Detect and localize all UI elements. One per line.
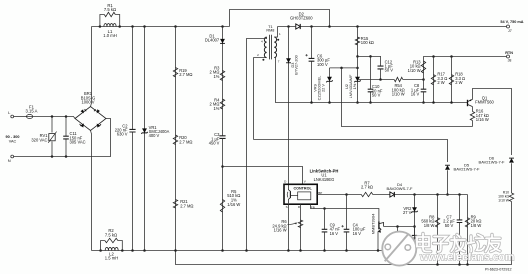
svg-text:CONTROL: CONTROL	[293, 186, 312, 190]
svg-text:630 V: 630 V	[117, 132, 128, 137]
svg-text:1/10 W: 1/10 W	[408, 68, 421, 73]
transistor Q1	[467, 100, 469, 106]
bridge rectifier BR1	[75, 107, 106, 131]
svg-text:RTN: RTN	[505, 51, 513, 55]
wire C4 lower	[346, 232, 348, 250]
zener VR9	[327, 77, 332, 82]
junction R5 bottom	[221, 249, 224, 252]
wire VR9 vertical	[329, 68, 331, 103]
svg-text:27 V: 27 V	[403, 210, 412, 215]
bus primary gnd	[92, 250, 415, 252]
inductor L1	[104, 24, 116, 27]
wire C11 lower	[65, 139, 67, 157]
resistor R18	[449, 75, 453, 85]
wire VR1 vertical	[144, 27, 146, 251]
wire node to C12	[358, 56, 381, 66]
capacitor C9	[322, 229, 328, 232]
IC U1 body	[284, 184, 317, 204]
watermark elecfans logo and text	[382, 232, 416, 266]
transformer T1 core	[269, 35, 271, 60]
wire R17	[433, 57, 435, 103]
wire C11 vertical	[65, 117, 67, 137]
zener VR1	[142, 128, 147, 133]
svg-text:16 V: 16 V	[353, 231, 362, 236]
svg-text:2 W: 2 W	[437, 80, 444, 85]
resistor R17	[431, 75, 435, 85]
junction pin4 bottom	[245, 249, 248, 252]
junction L2R2 left	[99, 249, 102, 252]
wire cap to gnd bus	[414, 238, 416, 250]
capacitor C11	[63, 136, 69, 139]
wire D5 bottom	[447, 170, 449, 194]
wire VR9 top link	[330, 67, 358, 69]
diode D4	[390, 192, 394, 197]
wire R7 to D4	[373, 194, 390, 196]
resistor R1	[104, 12, 115, 16]
svg-text:1%: 1%	[213, 74, 219, 79]
svg-text:1/10 W: 1/10 W	[498, 198, 510, 202]
transistor Q2	[378, 222, 380, 230]
svg-text:BAV21WS-7-F: BAV21WS-7-F	[454, 167, 480, 172]
junction D5 bottom	[446, 193, 449, 196]
junction C11 top	[65, 115, 68, 118]
svg-text:BAV20WS-7-F: BAV20WS-7-F	[387, 186, 413, 191]
svg-text:1/16 W: 1/16 W	[274, 228, 287, 233]
transformer T1 primary winding	[264, 37, 266, 58]
wire drain line	[288, 27, 290, 185]
wire R54 to C8	[403, 79, 424, 81]
diode D1	[220, 39, 225, 44]
junction top route	[328, 25, 331, 28]
wire D6 to R10	[511, 163, 513, 193]
svg-text:16 V: 16 V	[411, 92, 420, 97]
bus top-left	[92, 26, 230, 28]
svg-text:2.7 MΩ: 2.7 MΩ	[179, 139, 192, 144]
svg-text:LNK419EG: LNK419EG	[314, 177, 335, 182]
junction R17 bottom	[432, 101, 435, 104]
svg-text:RM8: RM8	[266, 29, 274, 33]
diode D2	[296, 24, 300, 29]
resistor R10	[509, 193, 513, 202]
wire R pin	[300, 204, 302, 250]
wire C9 lower	[324, 232, 326, 250]
svg-text:GH03TZ600: GH03TZ600	[290, 16, 313, 21]
wire R8	[437, 195, 439, 265]
junction C8 top	[422, 78, 425, 81]
junction R21 bottom	[174, 249, 177, 252]
wire S pin	[287, 204, 289, 250]
junction R1L1 right	[118, 25, 121, 28]
capacitor C12	[378, 66, 384, 69]
wire Q2 collector	[384, 226, 415, 228]
resistor R3	[220, 71, 224, 81]
junction R17 top	[432, 55, 435, 58]
resistor R4	[220, 99, 224, 109]
junction C9 bottom	[323, 249, 326, 252]
svg-text:1%: 1%	[213, 106, 219, 111]
wire T1 pin4	[247, 37, 267, 251]
svg-text:1.5 mH: 1.5 mH	[105, 256, 119, 261]
svg-text:N: N	[8, 158, 11, 163]
svg-text:MMBT3904: MMBT3904	[371, 213, 376, 234]
svg-text:50 V: 50 V	[372, 93, 381, 98]
wire R1 loop right	[115, 15, 119, 27]
svg-text:VAC: VAC	[9, 139, 17, 143]
junction C12 bottom	[379, 78, 382, 81]
junction C7 bottom	[458, 263, 461, 266]
junction C4 bottom	[345, 249, 348, 252]
resistor R8	[435, 218, 439, 228]
capacitor C8	[421, 89, 427, 92]
node V divider	[221, 165, 224, 168]
junction C6 top	[310, 25, 313, 28]
svg-text:S: S	[286, 205, 288, 209]
svg-text:7.5 kΩ: 7.5 kΩ	[104, 7, 116, 12]
wire R15	[357, 27, 359, 103]
junction D3 top	[287, 25, 290, 28]
wire C4 vertical	[346, 195, 348, 230]
svg-text:16 V: 16 V	[330, 231, 339, 236]
junction R19 top	[174, 25, 177, 28]
junction VR1 top	[143, 25, 146, 28]
wire T1 pin1	[274, 27, 277, 38]
wire RV1 lower	[51, 142, 53, 157]
capacitor C2	[129, 129, 135, 132]
junction VR1 bottom	[143, 249, 146, 252]
svg-text:50 V: 50 V	[445, 223, 454, 228]
shunt regulator U2	[355, 77, 360, 82]
svg-text:1.0 mH: 1.0 mH	[103, 33, 117, 38]
wire fuse to bridge	[32, 117, 75, 119]
junction R15 top	[356, 25, 359, 28]
wire R18	[451, 57, 453, 103]
resistor R15	[355, 37, 359, 45]
wire L to fuse	[14, 116, 27, 118]
junction C6 bottom	[310, 101, 313, 104]
svg-text:2.7 MΩ: 2.7 MΩ	[179, 72, 192, 77]
capacitor C6	[309, 58, 315, 61]
wire C2 lower	[132, 132, 134, 251]
wire R1 loop	[100, 15, 104, 27]
svg-text:BAV21WS-7-F: BAV21WS-7-F	[479, 159, 505, 164]
resistor R19	[173, 68, 177, 78]
resistor R9	[465, 218, 469, 228]
wire VR2 bus end	[414, 227, 416, 251]
diode D5	[445, 165, 450, 170]
junction RV1 bottom	[51, 155, 54, 158]
junction C7 top	[458, 193, 461, 196]
svg-text:54 V, 750 mA: 54 V, 750 mA	[500, 20, 523, 24]
svg-text:100 kΩ: 100 kΩ	[361, 40, 374, 45]
svg-text:V: V	[304, 180, 306, 184]
junction Q2 collector drop	[396, 225, 399, 228]
wire FB pin	[311, 204, 379, 221]
svg-text:7.5 kΩ: 7.5 kΩ	[105, 232, 117, 237]
resistor R21	[173, 200, 177, 209]
svg-text:450 V: 450 V	[209, 140, 220, 145]
wire C8 lower	[423, 92, 425, 103]
svg-text:22 V: 22 V	[321, 84, 326, 92]
wire C12 lower	[380, 69, 382, 80]
wire R19 chain	[175, 27, 177, 251]
svg-text:1000 V: 1000 V	[82, 99, 95, 104]
wire C9 vertical	[324, 209, 326, 230]
junction C2 bottom	[131, 249, 134, 252]
junction VR9 bottom	[328, 101, 331, 104]
wire D1 chain upper	[222, 27, 224, 136]
resistor R5	[220, 200, 224, 213]
svg-text:1/16 W: 1/16 W	[227, 202, 240, 207]
wire ref line	[359, 79, 395, 81]
capacitor C4	[344, 229, 350, 232]
svg-text:1/16 W: 1/16 W	[476, 117, 489, 122]
junction R18 top	[450, 55, 453, 58]
wire VR2 vertical	[414, 195, 416, 236]
wire secondary return line	[312, 102, 468, 104]
resistor R20	[173, 135, 177, 145]
T1 polarity dot primary	[262, 59, 264, 61]
svg-text:100 V: 100 V	[317, 62, 328, 67]
diode D6	[509, 158, 514, 163]
svg-text:2.7 MΩ: 2.7 MΩ	[180, 203, 193, 208]
IC U1 inner controller box	[298, 192, 311, 200]
capacitor C10	[368, 89, 374, 92]
svg-text:2.7 kΩ: 2.7 kΩ	[361, 185, 373, 190]
wire R2 loop right	[118, 241, 123, 251]
junction S pin bottom	[287, 249, 290, 252]
diode D3	[286, 58, 291, 63]
IC U1 mosfet symbol	[288, 185, 290, 203]
junction R1L1 left	[99, 25, 102, 28]
wire bias to R16 line	[342, 68, 473, 127]
R6 leader arrow	[287, 223, 296, 225]
wire C3 to R5	[222, 139, 224, 251]
wire D4 to R9	[395, 194, 468, 196]
junction R15 bottom	[356, 55, 359, 58]
svg-text:2 W: 2 W	[455, 80, 462, 85]
svg-text:50 V: 50 V	[385, 68, 394, 73]
junction C9 top	[323, 207, 326, 210]
junction L2R2 right	[121, 249, 124, 252]
wire drain to D5	[254, 140, 448, 163]
terminal N	[11, 155, 14, 158]
wire C10 vertical	[370, 56, 372, 89]
wire BP line	[317, 194, 361, 196]
junction VR2 top	[413, 193, 416, 196]
terminal J7	[507, 25, 510, 28]
junction C4 top	[345, 193, 348, 196]
resistor R54	[394, 77, 403, 81]
resistor R6	[298, 220, 302, 228]
wire R2 loop	[101, 241, 105, 251]
junction C11 bottom	[65, 155, 68, 158]
wire R16 bottom	[472, 121, 474, 127]
svg-text:320 VAC: 320 VAC	[31, 137, 47, 142]
wire T1 pin7	[274, 58, 311, 103]
svg-text:J8: J8	[508, 59, 512, 63]
junction R6 bottom	[299, 249, 302, 252]
junction R8 bottom	[436, 263, 439, 266]
resistor R7	[361, 192, 373, 196]
junction D1 top	[221, 25, 224, 28]
junction Q2 emitter bottom	[377, 249, 380, 252]
resistor R2	[105, 238, 118, 242]
wire D2 cathode rail	[301, 26, 507, 28]
svg-text:305 VAC: 305 VAC	[70, 139, 86, 144]
junction U2 bottom node	[356, 101, 359, 104]
inductor L2	[105, 247, 118, 250]
svg-text:1/8 W: 1/8 W	[424, 223, 435, 228]
fuse F1	[27, 114, 33, 118]
varistor RV1	[49, 134, 55, 141]
capacitor C3	[219, 136, 225, 139]
svg-text:1/10 W: 1/10 W	[392, 92, 405, 97]
wire C2 vertical	[132, 27, 134, 130]
junction C8 bottom	[422, 101, 425, 104]
zener VR2	[412, 207, 417, 212]
wire C7 lower	[459, 223, 461, 265]
wire C10 lower	[370, 92, 372, 103]
wire Q1 emitter	[473, 89, 512, 156]
wire output rail	[278, 26, 296, 28]
capacitor below VR2	[412, 235, 417, 238]
capacitor C7	[457, 220, 463, 223]
wire C6 lower	[311, 61, 313, 102]
svg-text:DL4007: DL4007	[205, 38, 220, 43]
wire Q2 collector drop	[397, 227, 399, 251]
svg-text:1%: 1%	[352, 83, 357, 89]
resistor R16	[470, 112, 474, 121]
svg-text:J7: J7	[508, 29, 512, 33]
varistor RV1 arrow	[48, 132, 56, 143]
wire top route	[230, 10, 330, 27]
wire R10 to return	[176, 202, 512, 265]
resistor R13	[421, 61, 425, 73]
svg-text:BYV27-200: BYV27-200	[295, 55, 299, 74]
junction C10 bottom	[369, 101, 372, 104]
wire Q2 emitter	[377, 232, 379, 251]
junction U2 top node	[356, 67, 359, 70]
wire RV1 vertical	[51, 117, 53, 133]
wire R9	[467, 195, 469, 265]
junction C2 top	[131, 25, 134, 28]
svg-text:www.elecfans.com: www.elecfans.com	[419, 251, 514, 263]
svg-text:FMMT560: FMMT560	[475, 100, 494, 105]
wire R13 vertical	[423, 56, 425, 89]
wire bridge plus riser	[91, 27, 92, 107]
wire RTN rail	[424, 56, 507, 58]
junction VR2 Q2 node	[413, 225, 416, 228]
junction 341 node	[340, 67, 343, 70]
terminal J8	[507, 55, 510, 58]
T1 polarity dot secondary	[277, 39, 279, 41]
junction RV1 top	[51, 115, 54, 118]
wire V pin	[223, 167, 303, 185]
wire bridge minus riser	[91, 131, 92, 251]
junction C10 top	[369, 55, 372, 58]
svg-text:1/8 W: 1/8 W	[471, 223, 482, 228]
svg-text:PI-6623-072912: PI-6623-072912	[485, 268, 511, 272]
wire C7 vertical	[459, 195, 461, 220]
junction R9 bottom	[466, 263, 469, 266]
wire Q1 collector	[472, 107, 474, 112]
wire C6 vertical	[311, 27, 313, 59]
transformer T1 secondary winding	[274, 37, 276, 58]
svg-text:400 V: 400 V	[149, 133, 160, 138]
terminal L	[11, 115, 14, 118]
svg-text:3.15 A: 3.15 A	[26, 109, 38, 114]
junction R8 top	[436, 193, 439, 196]
wire T1 pin2	[254, 58, 267, 140]
wire N line	[14, 119, 111, 157]
junction R18 bottom	[450, 101, 453, 104]
